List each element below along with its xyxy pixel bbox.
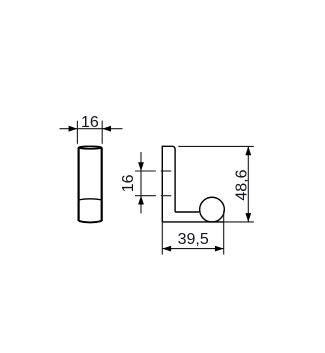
side view outline: inner bottom edge of arm [175,211,200,212]
dimension 39,5: right arrowhead pointing right [215,246,224,252]
dimension 16 (side view): lower tick segment crossing outline [161,195,172,197]
front view body (left view outline) [79,146,102,222]
dimension 48,6: bottom arrowhead pointing down [245,213,251,222]
dimension 48,6: dimension line [247,146,249,222]
dimension 16 (side view): lower tick outer segment [135,195,156,197]
svg-text:16: 16 [120,174,137,192]
dimension 39,5: left extension line [161,222,163,255]
side view outline: inner right edge of plate [174,149,176,212]
dimension 16 (front view width): left arrowhead [69,126,78,132]
side view outline: outer left edge [161,146,163,222]
dimension 16 (front view width): right arrowhead [102,126,111,132]
dimension 16 (front view width): extension line right [101,121,103,144]
dimension 16 (side view): dimension line [140,152,142,213]
side view outline: bottom edge [162,221,224,223]
dimension 16 (side view): upper arrowhead pointing down [138,162,144,171]
svg-text:39,5: 39,5 [178,231,209,248]
dimension 16 (side view): lower arrowhead pointing up [138,196,144,205]
dimension 16 (side view): upper tick segment crossing outline [161,170,172,172]
dimension 48,6: bottom extension line [224,221,254,223]
dimension 39,5: right extension line [223,211,225,255]
dimension 39,5: left arrowhead pointing left [162,246,171,252]
dimension 16 (side view): upper tick outer segment [135,170,156,172]
side view outline: top edge with rounded corner [162,146,175,149]
side view outline: hook bulb circle [200,197,225,222]
dimension 39,5: dimension line [162,248,223,250]
svg-text:16: 16 [81,114,99,131]
dimension 48,6: top extension line [178,145,254,147]
svg-text:48,6: 48,6 [233,169,250,200]
front view tangent arc line [79,199,102,200]
dimension 48,6: top arrowhead pointing up [245,146,251,155]
dimension 16 (front view width): dimension line [60,128,123,130]
dimension 16 (front view width): extension line left [76,121,78,144]
